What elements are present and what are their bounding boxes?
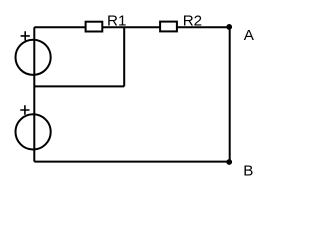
wire top: sources to node A [34, 26, 229, 28]
voltage source V1 [15, 31, 50, 75]
voltage source V2 [15, 105, 50, 149]
svg-text:A: A [244, 27, 255, 44]
resistor R2 [160, 12, 202, 31]
node A [226, 24, 255, 44]
wire left: through voltage sources [33, 27, 35, 161]
wire bottom: node B to sources [34, 161, 229, 163]
resistor R1 [86, 13, 127, 32]
node B [226, 159, 253, 180]
wire right: node A to node B [229, 27, 231, 161]
svg-text:B: B [243, 163, 253, 180]
wire mid horizontal: to left rail [34, 85, 124, 87]
wire mid vertical: from R1-R2 junction down [123, 27, 125, 86]
svg-text:R1: R1 [107, 13, 126, 30]
svg-text:R2: R2 [183, 12, 202, 29]
